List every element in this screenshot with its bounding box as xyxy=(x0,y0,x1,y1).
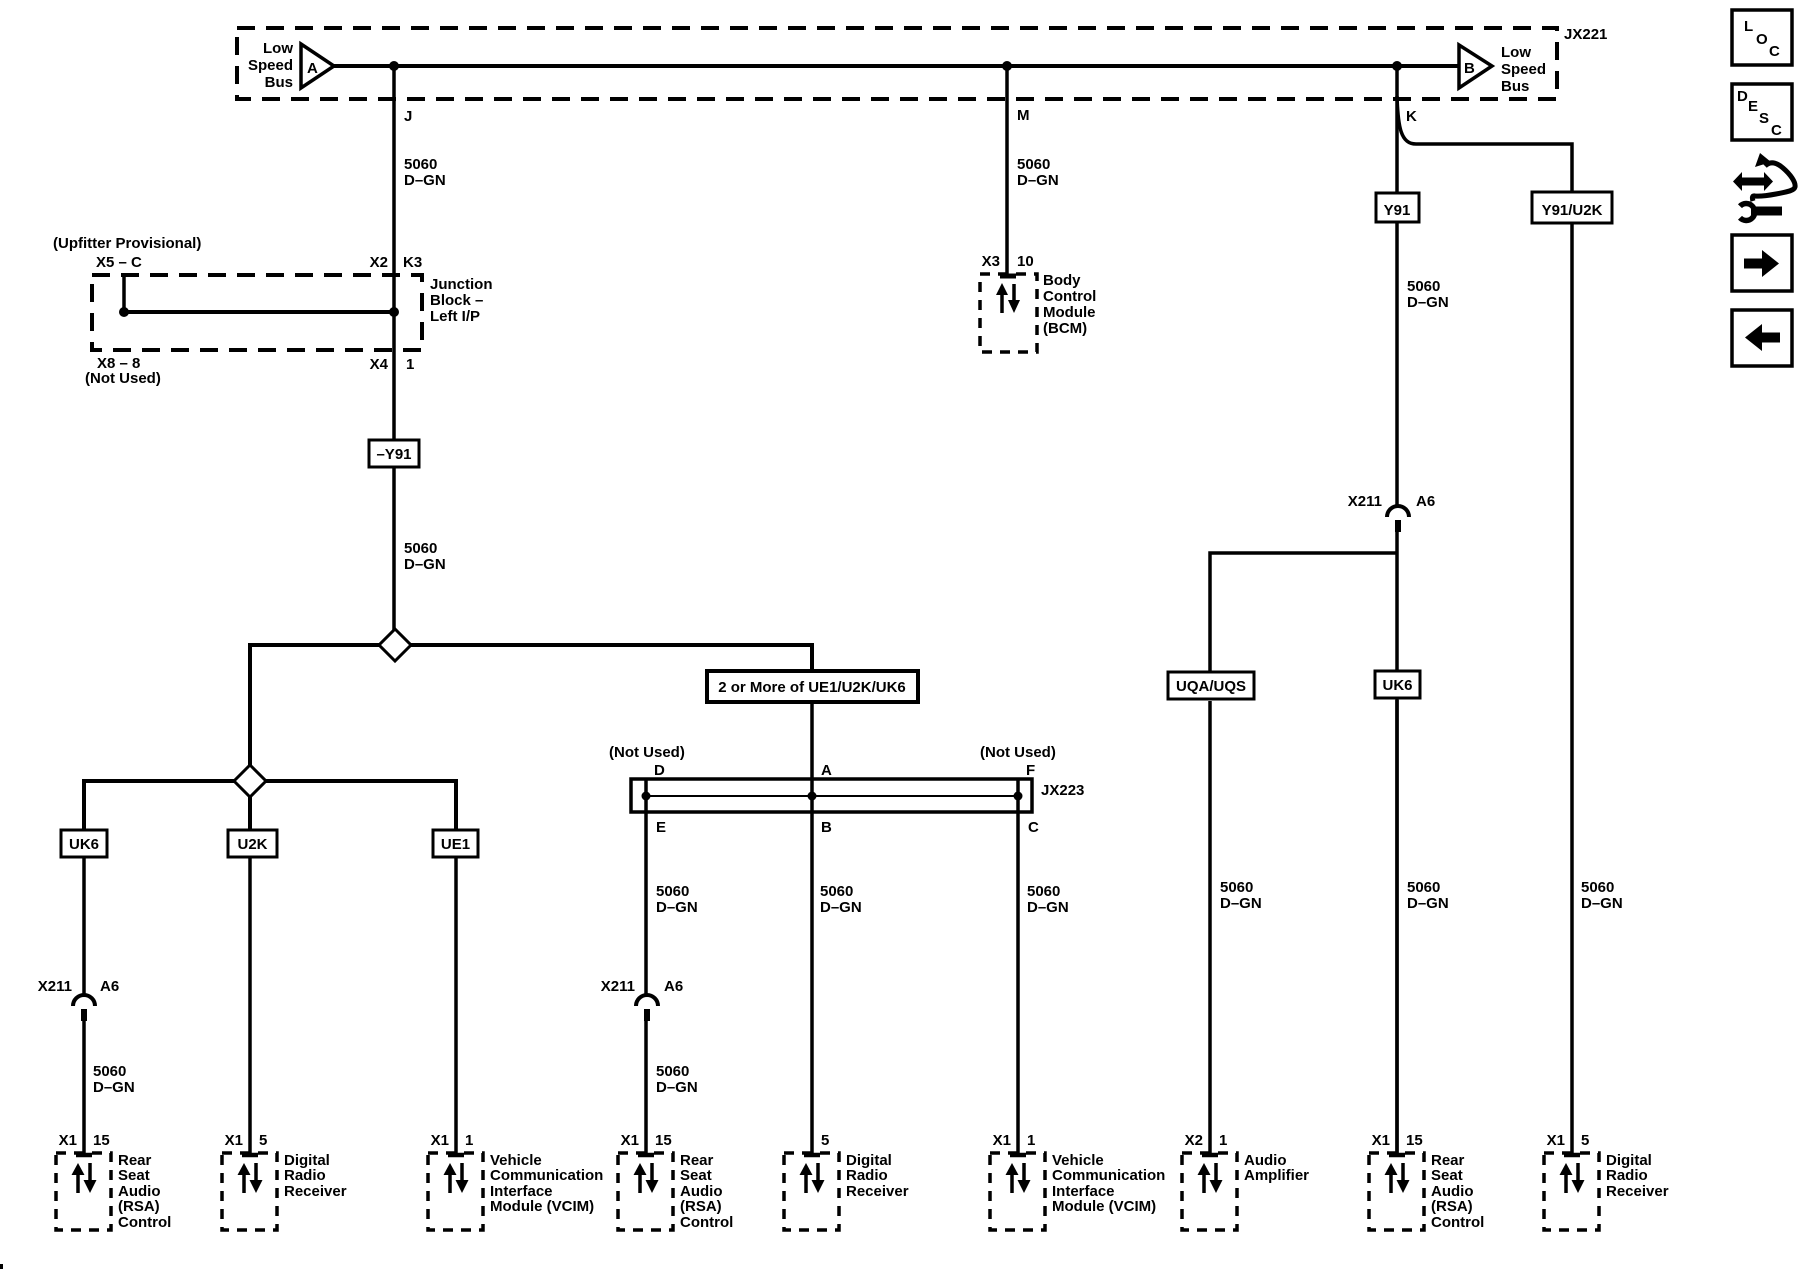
svg-text:Block –: Block – xyxy=(430,292,483,309)
svg-text:1: 1 xyxy=(465,1132,473,1149)
page corner mark xyxy=(0,1264,3,1269)
JX223 dot B xyxy=(808,792,817,801)
wire A from option box to JX223 xyxy=(810,702,814,779)
svg-text:UK6: UK6 xyxy=(69,836,99,853)
up arrow xyxy=(238,1163,251,1175)
wire below UQA/UQS xyxy=(1208,701,1212,1155)
BCM up arrow xyxy=(996,283,1008,313)
RPO box U2K xyxy=(228,830,277,857)
svg-text:Radio: Radio xyxy=(846,1167,888,1184)
svg-text:A: A xyxy=(307,60,318,77)
terminal bar xyxy=(448,1153,464,1158)
up arrow xyxy=(1385,1163,1398,1175)
svg-text:X211: X211 xyxy=(1348,493,1382,510)
svg-text:X1: X1 xyxy=(621,1132,639,1149)
svg-text:F: F xyxy=(1026,762,1035,779)
svg-text:1: 1 xyxy=(1219,1132,1227,1149)
svg-text:Bus: Bus xyxy=(1501,78,1529,95)
svg-text:Low: Low xyxy=(1501,44,1531,61)
svg-text:10: 10 xyxy=(1017,253,1034,270)
svg-text:(Upfitter Provisional): (Upfitter Provisional) xyxy=(53,235,201,252)
svg-text:Receiver: Receiver xyxy=(1606,1183,1669,1200)
svg-text:5: 5 xyxy=(1581,1132,1589,1149)
svg-text:Body: Body xyxy=(1043,272,1081,289)
connector box Y91/U2K xyxy=(1532,192,1612,223)
wire UE1 down xyxy=(454,857,458,1155)
splice diamond S2 xyxy=(234,765,266,797)
up arrow xyxy=(1560,1163,1573,1175)
svg-text:5060: 5060 xyxy=(656,1063,689,1080)
svg-text:JX221: JX221 xyxy=(1564,26,1607,43)
svg-text:D–GN: D–GN xyxy=(404,172,446,189)
svg-text:Y91/U2K: Y91/U2K xyxy=(1542,202,1603,219)
JX223 dot C xyxy=(1014,792,1023,801)
down arrow xyxy=(254,1163,258,1182)
component Digital Radio Receiver at x=812 xyxy=(784,1132,909,1230)
wire J below -Y91 xyxy=(392,467,396,630)
svg-text:Control: Control xyxy=(118,1214,171,1231)
svg-text:D–GN: D–GN xyxy=(1407,294,1449,311)
down arrow xyxy=(816,1163,820,1182)
junction dot J xyxy=(389,61,399,71)
component dashed box xyxy=(1369,1153,1424,1230)
svg-text:Left I/P: Left I/P xyxy=(430,308,480,325)
component dashed box xyxy=(1182,1153,1237,1230)
svg-text:X1: X1 xyxy=(225,1132,243,1149)
junction dot M xyxy=(1002,61,1012,71)
wire below X211 (mid) xyxy=(644,1021,648,1155)
down arrow xyxy=(88,1163,92,1182)
svg-text:X1: X1 xyxy=(59,1132,77,1149)
svg-text:J: J xyxy=(404,108,412,125)
icon back arrow box xyxy=(1732,310,1792,366)
svg-text:D–GN: D–GN xyxy=(404,556,446,573)
svg-text:X2: X2 xyxy=(370,254,388,271)
svg-text:B: B xyxy=(821,819,832,836)
inline connector X211/A6 (right) arc xyxy=(1387,506,1409,517)
down arrow xyxy=(1576,1163,1580,1182)
component Digital Radio Receiver at x=1572 xyxy=(1544,1132,1669,1230)
svg-text:UE1: UE1 xyxy=(441,836,470,853)
svg-text:D–GN: D–GN xyxy=(656,899,698,916)
svg-text:5060: 5060 xyxy=(1407,879,1440,896)
bus exit triangle B xyxy=(1459,45,1492,88)
wire junction rail xyxy=(124,310,394,314)
svg-text:D: D xyxy=(1737,88,1748,105)
svg-text:(Not Used): (Not Used) xyxy=(609,744,685,761)
inline connector X211/A6 (left) arc xyxy=(73,995,95,1006)
inline connector X211/A6 (mid) arc xyxy=(636,995,658,1006)
svg-text:JX223: JX223 xyxy=(1041,782,1084,799)
icon jump arrow with wrench xyxy=(1733,153,1795,221)
svg-text:Amplifier: Amplifier xyxy=(1244,1167,1309,1184)
svg-text:D–GN: D–GN xyxy=(1220,895,1262,912)
svg-text:A6: A6 xyxy=(100,978,119,995)
down arrow xyxy=(1022,1163,1026,1182)
svg-text:15: 15 xyxy=(655,1132,672,1149)
component dashed box xyxy=(222,1153,277,1230)
svg-text:5060: 5060 xyxy=(404,156,437,173)
svg-text:X4: X4 xyxy=(370,356,389,373)
component dashed box xyxy=(56,1153,111,1230)
svg-text:–Y91: –Y91 xyxy=(376,446,411,463)
terminal bar xyxy=(804,1153,820,1158)
svg-text:Low: Low xyxy=(263,40,293,57)
BCM dashed box xyxy=(980,274,1037,352)
svg-text:B: B xyxy=(1464,60,1475,77)
wire S2 to UK6 xyxy=(84,781,234,830)
BCM terminal bar xyxy=(1000,274,1016,279)
terminal bar xyxy=(1389,1153,1405,1158)
svg-text:D–GN: D–GN xyxy=(1581,895,1623,912)
wire S1 to 2-or-more box xyxy=(411,645,812,671)
junction block - left I/P dashed box xyxy=(92,275,422,350)
wire below UK6 (right) xyxy=(1395,700,1399,1155)
BCM down arrow xyxy=(1008,284,1020,313)
icon forward arrow box xyxy=(1732,235,1792,291)
svg-text:D–GN: D–GN xyxy=(820,899,862,916)
svg-text:Speed: Speed xyxy=(1501,61,1546,78)
svg-text:Bus: Bus xyxy=(265,74,293,91)
svg-text:Radio: Radio xyxy=(284,1167,326,1184)
component dashed box xyxy=(784,1153,839,1230)
wire S2 to UE1 xyxy=(266,781,456,830)
RPO box UE1 xyxy=(433,830,478,857)
wire below X211 (left) xyxy=(82,1021,86,1155)
svg-text:5060: 5060 xyxy=(1027,883,1060,900)
junction block JX223 box xyxy=(631,779,1032,812)
svg-text:D–GN: D–GN xyxy=(656,1079,698,1096)
connector box Y91 xyxy=(1376,193,1419,222)
svg-text:5: 5 xyxy=(259,1132,267,1149)
svg-text:D–GN: D–GN xyxy=(1017,172,1059,189)
up arrow xyxy=(72,1163,85,1175)
svg-text:UQA/UQS: UQA/UQS xyxy=(1176,678,1246,695)
svg-text:C: C xyxy=(1771,122,1782,139)
svg-text:Communication: Communication xyxy=(1052,1167,1165,1184)
wire F/C through JX223 xyxy=(1016,779,1020,1155)
svg-text:Control: Control xyxy=(1431,1214,1484,1231)
wire K vertical to Y91 xyxy=(1395,66,1399,193)
svg-text:Radio: Radio xyxy=(1606,1167,1648,1184)
svg-text:5060: 5060 xyxy=(1017,156,1050,173)
option box 2 or More of UE1/U2K/UK6 xyxy=(707,671,918,702)
up arrow xyxy=(800,1163,813,1175)
up arrow xyxy=(1198,1163,1211,1175)
svg-text:E: E xyxy=(1748,98,1758,115)
svg-text:D–GN: D–GN xyxy=(1407,895,1449,912)
terminal bar xyxy=(1202,1153,1218,1158)
svg-text:5060: 5060 xyxy=(1581,879,1614,896)
svg-text:Control: Control xyxy=(680,1214,733,1231)
up arrow xyxy=(634,1163,647,1175)
svg-text:5060: 5060 xyxy=(820,883,853,900)
svg-text:1: 1 xyxy=(406,356,414,373)
bus entry triangle A xyxy=(301,44,334,88)
junction dot K xyxy=(1392,61,1402,71)
svg-text:5060: 5060 xyxy=(93,1063,126,1080)
component dashed box xyxy=(1544,1153,1599,1230)
svg-text:15: 15 xyxy=(1406,1132,1423,1149)
svg-text:X1: X1 xyxy=(1372,1132,1390,1149)
wire D/E through JX223 xyxy=(644,779,648,995)
wire S2 to U2K xyxy=(248,797,252,830)
up arrow xyxy=(1006,1163,1019,1175)
svg-text:M: M xyxy=(1017,107,1030,124)
down arrow xyxy=(1401,1163,1405,1182)
connector stub (mid) xyxy=(644,1009,650,1021)
component dashed box xyxy=(990,1153,1045,1230)
svg-text:O: O xyxy=(1756,31,1768,48)
wire K branch curve to Y91/U2K xyxy=(1397,96,1572,192)
svg-text:X3: X3 xyxy=(982,253,1000,270)
svg-text:Seat: Seat xyxy=(680,1167,712,1184)
wire upfitter stub xyxy=(122,275,126,312)
terminal bar xyxy=(1010,1153,1026,1158)
component dashed box xyxy=(618,1153,673,1230)
svg-text:Module (VCIM): Module (VCIM) xyxy=(1052,1198,1156,1215)
svg-text:UK6: UK6 xyxy=(1382,677,1412,694)
svg-text:(RSA): (RSA) xyxy=(680,1198,722,1215)
down arrow xyxy=(1214,1163,1218,1182)
svg-text:Communication: Communication xyxy=(490,1167,603,1184)
svg-text:Receiver: Receiver xyxy=(284,1183,347,1200)
component Audio Amplifier at x=1210 xyxy=(1182,1132,1309,1230)
svg-text:X1: X1 xyxy=(993,1132,1011,1149)
wire branch to UQA/UQS xyxy=(1210,553,1397,672)
svg-text:U2K: U2K xyxy=(237,836,267,853)
svg-text:Receiver: Receiver xyxy=(846,1183,909,1200)
terminal bar xyxy=(242,1153,258,1158)
down arrow xyxy=(460,1163,464,1182)
connector box -Y91 xyxy=(369,440,419,467)
component VCIM at x=1018 xyxy=(990,1132,1165,1230)
wire below X211 (right) xyxy=(1395,532,1399,1155)
wire B through JX223 xyxy=(810,779,814,1155)
terminal bar xyxy=(1564,1153,1580,1158)
svg-text:5060: 5060 xyxy=(656,883,689,900)
component dashed box xyxy=(428,1153,483,1230)
svg-text:A6: A6 xyxy=(1416,493,1435,510)
svg-text:X1: X1 xyxy=(431,1132,449,1149)
svg-text:2 or More of UE1/U2K/UK6: 2 or More of UE1/U2K/UK6 xyxy=(718,679,906,696)
svg-text:X2: X2 xyxy=(1185,1132,1203,1149)
svg-text:15: 15 xyxy=(93,1132,110,1149)
svg-text:Module: Module xyxy=(1043,304,1096,321)
svg-text:L: L xyxy=(1744,18,1753,35)
svg-text:Seat: Seat xyxy=(1431,1167,1463,1184)
svg-text:K3: K3 xyxy=(403,254,422,271)
svg-text:Module (VCIM): Module (VCIM) xyxy=(490,1198,594,1215)
svg-text:5060: 5060 xyxy=(404,540,437,557)
down arrow xyxy=(650,1163,654,1182)
wire Y91/U2K down xyxy=(1570,223,1574,1155)
svg-text:X5 – C: X5 – C xyxy=(96,254,142,271)
JX223 dot E xyxy=(642,792,651,801)
junction dot upfitter xyxy=(119,307,129,317)
bus dashed box JX221 xyxy=(237,28,1557,99)
junction dot rail to J xyxy=(389,307,399,317)
wire J vertical xyxy=(392,66,396,440)
svg-text:(BCM): (BCM) xyxy=(1043,320,1087,337)
svg-text:S: S xyxy=(1759,110,1769,127)
svg-text:1: 1 xyxy=(1027,1132,1035,1149)
wire low speed bus xyxy=(334,64,1459,68)
wire M vertical xyxy=(1005,66,1009,276)
svg-text:(RSA): (RSA) xyxy=(1431,1198,1473,1215)
svg-text:D–GN: D–GN xyxy=(93,1079,135,1096)
splice diamond S1 xyxy=(379,629,411,661)
wire below Y91 xyxy=(1395,222,1399,506)
terminal bar xyxy=(76,1153,92,1158)
up arrow xyxy=(444,1163,457,1175)
svg-text:(Not Used): (Not Used) xyxy=(980,744,1056,761)
svg-text:5060: 5060 xyxy=(1220,879,1253,896)
component Rear Seat Audio (RSA) Control at x=1397 xyxy=(1369,1132,1484,1231)
icon LOC box xyxy=(1732,10,1792,65)
wire S1 to S2 xyxy=(250,645,379,766)
svg-text:Junction: Junction xyxy=(430,276,493,293)
svg-text:5060: 5060 xyxy=(1407,278,1440,295)
component Rear Seat Audio (RSA) Control at x=646 xyxy=(618,1132,733,1231)
component Digital Radio Receiver at x=250 xyxy=(222,1132,347,1230)
RPO box UQA/UQS xyxy=(1168,672,1254,699)
svg-text:(Not Used): (Not Used) xyxy=(85,370,161,387)
wire UK6 down to connector xyxy=(82,857,86,995)
svg-text:D: D xyxy=(654,762,665,779)
JX223 internal bus xyxy=(646,795,1019,797)
wire U2K down xyxy=(248,857,252,1155)
svg-text:Control: Control xyxy=(1043,288,1096,305)
svg-text:X1: X1 xyxy=(1547,1132,1565,1149)
component VCIM at x=456 xyxy=(428,1132,603,1230)
icon DESC box xyxy=(1732,84,1792,140)
svg-text:5: 5 xyxy=(821,1132,829,1149)
svg-text:Y91: Y91 xyxy=(1384,202,1411,219)
svg-text:(RSA): (RSA) xyxy=(118,1198,160,1215)
component Rear Seat Audio (RSA) Control at x=84 xyxy=(56,1132,171,1231)
svg-text:Seat: Seat xyxy=(118,1167,150,1184)
svg-text:A: A xyxy=(821,762,832,779)
connector stub (right) xyxy=(1395,520,1401,532)
svg-text:C: C xyxy=(1028,819,1039,836)
svg-text:C: C xyxy=(1769,43,1780,60)
connector stub (left) xyxy=(81,1009,87,1021)
RPO box UK6 (right) xyxy=(1375,671,1420,698)
svg-text:X211: X211 xyxy=(601,978,635,995)
svg-text:A6: A6 xyxy=(664,978,683,995)
terminal bar xyxy=(638,1153,654,1158)
svg-text:D–GN: D–GN xyxy=(1027,899,1069,916)
RPO box UK6 (left) xyxy=(61,830,107,857)
svg-text:X211: X211 xyxy=(38,978,72,995)
svg-text:Speed: Speed xyxy=(248,57,293,74)
svg-text:K: K xyxy=(1406,108,1417,125)
svg-text:E: E xyxy=(656,819,666,836)
